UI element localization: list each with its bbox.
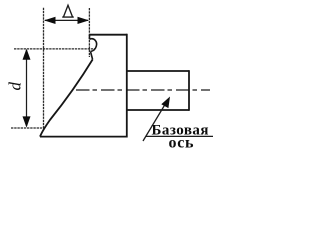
body outline: left vertical at top corner: [89, 35, 91, 40]
body outline: top edge: [90, 34, 127, 36]
extension line top of d dimension: [14, 48, 95, 50]
body outline: curl (rounded ear): [90, 39, 97, 52]
arrowhead delta right: [78, 17, 90, 24]
dimension line delta: [45, 19, 88, 21]
body outline: bottom edge: [40, 136, 127, 138]
arrowhead d top: [23, 49, 31, 60]
body outline: short vertical below curl: [91, 51, 93, 59]
leader line to base axis: [143, 102, 167, 141]
centerline (base axis, dash-dot): [76, 89, 210, 91]
leader shelf (underline): [146, 135, 213, 137]
svg-text:ось: ось: [169, 135, 195, 152]
extension line left of delta dimension: [43, 8, 45, 128]
body outline: slanted cone generator: [40, 60, 93, 137]
shaft outline: bottom edge: [127, 109, 189, 111]
shaft outline: right edge: [188, 70, 190, 111]
arrowhead delta left: [44, 17, 56, 24]
body outline: right edge: [126, 34, 128, 138]
leader arrowhead: [161, 97, 170, 109]
extension line right of delta dimension: [88, 8, 90, 57]
shaft outline: top edge: [127, 70, 189, 72]
label delta (triangle symbol): [62, 5, 74, 17]
dimension line d: [26, 50, 28, 126]
extension line bottom of d dimension: [11, 127, 45, 129]
svg-text:d: d: [6, 82, 25, 91]
arrowhead d bottom: [23, 116, 31, 127]
